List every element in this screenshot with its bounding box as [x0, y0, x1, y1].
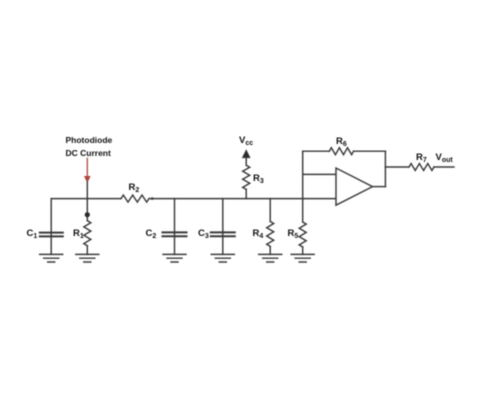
resistor R7 — [409, 164, 434, 171]
ground for C3 — [211, 254, 234, 262]
label R5 — [288, 229, 299, 240]
resistor R6 — [329, 148, 353, 155]
label R6 — [336, 137, 347, 148]
capacitor C2 — [174, 199, 176, 255]
label R7 — [416, 153, 427, 164]
label Photodiode DC Current — [66, 134, 113, 160]
resistor R5 — [299, 222, 306, 247]
ground for R4 — [259, 254, 282, 262]
wire to Vout — [434, 166, 454, 168]
ground for R5 — [291, 254, 314, 262]
op-amp U1 — [336, 168, 373, 205]
resistor R2 — [121, 195, 149, 202]
resistor R1 — [84, 221, 91, 246]
capacitor C1 — [50, 199, 52, 255]
photodiode input red arrow — [86, 158, 88, 176]
ground for C2 — [163, 254, 186, 262]
ground for R1 — [76, 254, 99, 262]
node junction dot — [85, 212, 90, 217]
label C1 — [27, 229, 38, 240]
wire Vcc to R3 — [245, 158, 247, 166]
label Vout — [436, 153, 453, 164]
wire feedback-node vertical (inverting input / R5 branch) — [302, 151, 304, 222]
label C2 — [146, 229, 157, 240]
label Vcc — [239, 136, 253, 147]
resistor R4 — [269, 199, 271, 222]
wire output tap — [385, 166, 409, 168]
wire main horizontal rail — [51, 198, 121, 200]
label R1 — [73, 229, 84, 240]
wire feedback right vertical — [384, 151, 386, 186]
Vcc arrow — [243, 150, 250, 157]
capacitor C3 — [222, 199, 224, 255]
label R2 — [129, 183, 140, 194]
resistor R3 — [243, 165, 250, 189]
junction at R2 right end — [151, 197, 154, 200]
label R3 — [253, 174, 264, 185]
wire photodiode branch — [86, 182, 88, 221]
wire op-amp upper input — [303, 173, 336, 175]
wire op-amp output to node — [373, 186, 386, 188]
label R4 — [253, 229, 264, 240]
label C3 — [198, 229, 209, 240]
wire feedback top — [303, 150, 330, 152]
ground for C1 — [40, 254, 63, 262]
